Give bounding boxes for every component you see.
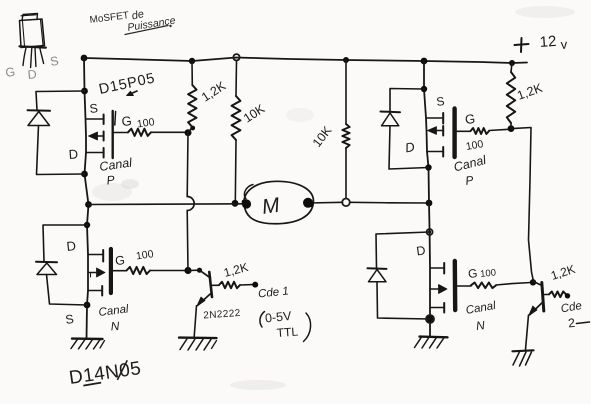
resistor 100 gate Q3 <box>457 128 509 134</box>
label (0-5V TTL) <box>260 309 311 342</box>
pin label S (Q3) <box>435 94 445 109</box>
mosfet Q2 Canal N left - D stub <box>88 250 103 262</box>
paper smudges (decorative) <box>92 6 575 390</box>
label Canal P (Q3) <box>452 153 488 188</box>
diode D2 wires <box>43 225 87 305</box>
transistor T2 base wire + resistor 1,2K <box>545 292 571 299</box>
label Canal N (Q4) <box>465 300 497 333</box>
diode D4 symbol <box>368 268 387 282</box>
label 2N2222 <box>203 308 241 322</box>
transistor T1 base bar <box>209 272 212 297</box>
label D14N05 <box>68 358 143 389</box>
pin label D (package) <box>27 67 37 82</box>
node right rail / diode4 top <box>427 229 433 235</box>
svg-text:D: D <box>415 243 426 258</box>
label 1,2K right <box>515 81 545 103</box>
resistor 100 gate Q1 <box>114 129 187 136</box>
mosfet Q3 D stub <box>427 147 443 157</box>
TO-220 package sketch <box>20 14 46 68</box>
diode D3 wires <box>389 89 429 170</box>
resistor 1,2K right <box>507 63 515 127</box>
pin label S (Q1) <box>89 101 99 116</box>
diode D3 symbol <box>381 112 401 126</box>
pin label D (Q1) <box>68 146 78 162</box>
label 100 (Q4) <box>480 267 497 280</box>
node motor wire / 10K no.1 <box>232 200 239 207</box>
mosfet Q1 Canal P left - S stub <box>86 115 104 125</box>
supply label +12V <box>515 33 569 52</box>
pin label G (Q1) <box>121 113 132 129</box>
motor terminal right <box>303 198 314 208</box>
svg-text:G: G <box>121 113 132 129</box>
svg-text:S: S <box>89 101 99 116</box>
pin label D (Q2) <box>66 238 77 254</box>
resistor 10K no.2 <box>342 60 349 198</box>
svg-text:TTL: TTL <box>276 325 299 340</box>
ground T2 emitter <box>513 350 534 366</box>
diode D4 wires <box>376 232 430 319</box>
label 10K no.2 <box>310 123 335 150</box>
node rail / right half-bridge <box>421 58 428 65</box>
motor terminal left <box>242 199 251 208</box>
mosfet Q4 S stub <box>430 303 444 313</box>
node gate Q3 / 1,2K right <box>508 125 515 132</box>
svg-text:N: N <box>110 319 120 334</box>
wire gate-node drop left <box>186 133 189 197</box>
mosfet Q2 S stub <box>88 286 102 296</box>
mosfet Q4 gate bar <box>453 261 458 310</box>
svg-text:D: D <box>27 67 37 82</box>
svg-text:12: 12 <box>539 33 557 51</box>
pin label S (Q2) <box>64 312 74 327</box>
mosfet Q2 gate bar <box>109 249 113 293</box>
node diode2 bottom / source <box>84 302 91 309</box>
node right rail / diode4 bottom <box>426 315 434 323</box>
wire gate Q3 to T2 collector <box>511 128 534 282</box>
ground Q2 source <box>71 339 105 349</box>
node Q3 drain-diode bottom <box>425 164 431 170</box>
node gate Q2 / collector T1 <box>184 267 191 274</box>
mosfet Q4 body arrow <box>430 285 447 294</box>
label 100 (Q3) <box>465 138 484 153</box>
svg-text:N: N <box>475 318 485 333</box>
diode D2 symbol <box>36 262 57 275</box>
label 1,2K (T2) <box>549 262 577 283</box>
wire motor right <box>308 201 429 204</box>
node motor wire / 10K no.2 (open) <box>342 199 350 207</box>
resistor 100 gate Q2 <box>113 267 186 274</box>
label Cde 1 <box>258 285 290 300</box>
svg-text:G: G <box>4 65 16 80</box>
wire hop over motor wire <box>187 197 194 211</box>
svg-text:D: D <box>68 146 78 162</box>
transistor T2 emitter <box>526 303 542 350</box>
mosfet Q1 body arrow <box>89 132 104 141</box>
label 100 (Q1) <box>136 116 155 130</box>
svg-text:G: G <box>115 253 126 268</box>
wire left half-bridge rail <box>84 58 89 339</box>
mosfet Q3 gate bar <box>452 109 456 158</box>
mosfet Q1 D stub <box>86 148 104 158</box>
resistor 10K no.1 <box>232 61 241 204</box>
label Canal N (Q2) <box>98 303 130 333</box>
node Q-P-left drain-diode bottom <box>81 171 88 178</box>
node Q3 drain-diode top <box>421 86 427 92</box>
svg-text:100: 100 <box>136 116 155 130</box>
label 1,2K (T1) <box>222 260 249 280</box>
wire motor left <box>89 203 247 206</box>
pin label D (Q3) <box>404 139 416 155</box>
motor M body <box>244 181 313 223</box>
mosfet Q2 body arrow <box>88 268 105 277</box>
mosfet Q3 Canal P right - S stub <box>426 113 443 124</box>
wire +12V top rail <box>84 58 527 64</box>
pin label G (Q3) <box>464 111 476 127</box>
wire right half-bridge rail <box>424 61 430 337</box>
resistor 100 gate Q4 <box>457 283 531 289</box>
label Cde 2 <box>560 300 590 331</box>
node rail / resistor 10K no.2 <box>343 57 349 63</box>
node motor wire / right rail <box>426 200 433 207</box>
node motor wire tap left <box>85 201 92 208</box>
title MOSFET de Puissance <box>89 8 176 34</box>
svg-text:P: P <box>106 173 115 188</box>
pin label D (Q4) <box>415 243 426 258</box>
mosfet Q3 body arrow <box>428 126 444 136</box>
label 100 (Q2) <box>135 248 154 262</box>
pin label G (Q2) <box>115 253 126 268</box>
diode D1 symbol <box>28 110 51 125</box>
node Q-P-left drain-diode top <box>81 88 88 95</box>
ground T1 emitter <box>179 338 217 350</box>
pin label G (Q4) <box>467 266 478 281</box>
label 1,2K left <box>199 78 229 104</box>
node gate Q1 / 1,2K / drop wire <box>185 126 196 137</box>
transistor T1 emitter <box>194 293 211 337</box>
node rail / left half-bridge <box>81 55 88 62</box>
node rail / resistor 10K no.1 (open) <box>233 54 239 60</box>
node rail / resistor 1,2K right <box>509 60 515 66</box>
node rail / resistor 1,2K left <box>189 58 195 64</box>
svg-text:100: 100 <box>480 267 497 280</box>
diode D1 wires <box>36 91 85 175</box>
label 10K no.1 <box>241 101 268 125</box>
pin label G (package) <box>4 65 16 80</box>
transistor T1 base wire + resistor 1,2K <box>212 282 258 289</box>
svg-text:G: G <box>464 111 476 127</box>
transistor T1 collector <box>188 268 211 278</box>
resistor 1,2K left <box>188 61 196 132</box>
svg-text:0-5V: 0-5V <box>264 309 292 326</box>
wire hop to collector node <box>186 211 189 271</box>
label M (motor) <box>260 194 281 219</box>
svg-text:D: D <box>66 238 77 254</box>
ground Q4 source <box>415 337 448 348</box>
label D15P05 <box>98 70 157 98</box>
svg-text:G: G <box>467 266 478 281</box>
transistor T2 base bar <box>534 282 544 312</box>
node T2 collector <box>530 279 536 285</box>
node diode2 top <box>84 222 90 228</box>
pin label S (package) <box>49 54 60 69</box>
mosfet Q1 gate bar <box>113 111 116 158</box>
label Canal P (Q1) <box>98 155 134 187</box>
mosfet Q4 Canal N right - D stub <box>430 263 444 274</box>
svg-text:100: 100 <box>135 248 154 262</box>
